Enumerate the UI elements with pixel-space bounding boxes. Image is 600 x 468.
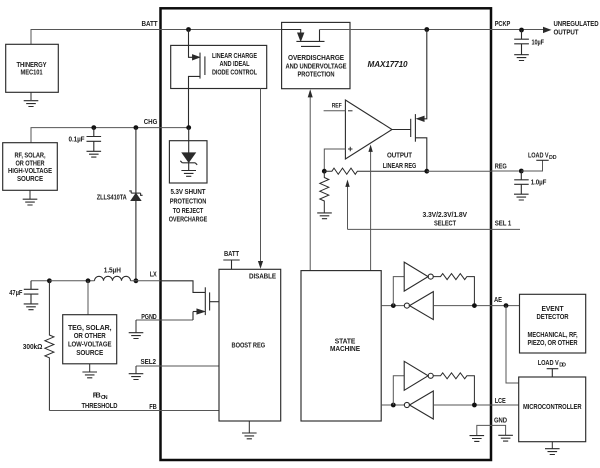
- capacitor C4 47µF: [24, 281, 39, 304]
- junction LX / D1 anode: [134, 278, 139, 283]
- svg-text:DISABLE: DISABLE: [249, 271, 276, 280]
- svg-text:OUTPUT: OUTPUT: [387, 151, 412, 160]
- block overdischarge and undervoltage protection: [282, 22, 350, 88]
- junction PCKP / output FET drain: [424, 27, 429, 32]
- ground PGND: [129, 333, 144, 339]
- wire wire battery to ground: [30, 92, 32, 100]
- svg-text:PIEZO, OR OTHER: PIEZO, OR OTHER: [528, 338, 579, 347]
- wire wire PCKP to unregulated output: [491, 29, 543, 31]
- svg-text:LX: LX: [150, 270, 157, 279]
- junction AE / microcontroller: [504, 303, 509, 308]
- transistor Q3 output linear reg FET: [392, 30, 427, 172]
- ground divider: [317, 213, 332, 219]
- wire wire L1 to LX pin: [131, 280, 161, 282]
- block linear charge and ideal diode control: [171, 45, 267, 88]
- wire wire SEL2 ground stem: [135, 366, 137, 374]
- diode D2 zener shunt: [180, 128, 197, 171]
- svg-text:TO REJECT: TO REJECT: [173, 206, 204, 215]
- wire state machine to overdischarge block (arrow): [309, 97, 311, 271]
- wire state machine to AE node: [381, 305, 404, 307]
- junction AE latch node: [391, 303, 396, 308]
- junction divider tap: [322, 169, 327, 174]
- wire wire microcontroller ground: [551, 442, 553, 449]
- wire wire REG to load: [491, 170, 519, 172]
- svg-text:SOURCE: SOURCE: [17, 174, 43, 183]
- wire wire BATT to PCKP internal: [320, 29, 492, 31]
- svg-text:DIODE CONTROL: DIODE CONTROL: [212, 67, 257, 76]
- ground SEL2: [129, 374, 144, 380]
- inductor L1 1.5µH: [95, 276, 131, 281]
- svg-text:SELECT: SELECT: [434, 219, 456, 228]
- ground C2: [514, 55, 529, 61]
- plus sign: [348, 147, 353, 152]
- svg-text:DD: DD: [549, 155, 557, 161]
- resistor R3 300kΩ: [45, 281, 54, 411]
- svg-text:PGND: PGND: [141, 312, 157, 321]
- svg-text:0.1µF: 0.1µF: [69, 135, 85, 144]
- junction LX / R3: [47, 278, 52, 283]
- svg-text:REG: REG: [495, 162, 507, 171]
- junction CHG / C1: [91, 125, 96, 130]
- svg-text:DD: DD: [559, 363, 566, 369]
- block state machine: [301, 271, 381, 421]
- transistor Q1 ideal diode FET: [189, 30, 205, 128]
- svg-text:LCE: LCE: [495, 396, 506, 405]
- block event detector: [520, 294, 586, 353]
- inverter AE driver: [404, 262, 433, 291]
- wire AE latch node to driver input: [393, 277, 404, 306]
- wire wire SEL1: [348, 228, 521, 230]
- svg-text:FB: FB: [149, 402, 157, 411]
- svg-text:MEC101: MEC101: [21, 68, 43, 77]
- svg-text:MACHINE: MACHINE: [330, 344, 360, 353]
- svg-text:CHG: CHG: [144, 117, 158, 126]
- svg-text:1.0µF: 1.0µF: [531, 178, 547, 187]
- wire wire REG inside: [427, 170, 491, 172]
- resistor LCE series: [433, 373, 474, 405]
- wire SEL1 wiper arrow to R1: [347, 187, 349, 230]
- svg-text:BATT: BATT: [224, 249, 239, 258]
- svg-text:BOOST REG: BOOST REG: [232, 341, 266, 350]
- resistor R2 divider bottom: [320, 171, 329, 213]
- svg-text:SEL2: SEL2: [141, 357, 157, 366]
- minus sign: [348, 110, 353, 112]
- junction AE pin node: [472, 303, 477, 308]
- svg-text:3.3V/2.3V/1.8V: 3.3V/2.3V/1.8V: [423, 210, 468, 219]
- wire wire PGND: [136, 319, 193, 321]
- ground TEG: [82, 372, 97, 378]
- svg-text:LOAD V: LOAD V: [538, 358, 559, 367]
- svg-text:SEL 1: SEL 1: [495, 218, 512, 227]
- wire wire GND pin: [477, 425, 506, 435]
- capacitor C2 10µF: [514, 30, 529, 55]
- svg-text:MICROCONTROLLER: MICROCONTROLLER: [523, 402, 582, 411]
- wire wire TEG to ground: [89, 364, 91, 372]
- wire AE pin line: [433, 305, 491, 307]
- svg-text:5.3V SHUNT: 5.3V SHUNT: [171, 187, 206, 196]
- ground C3: [514, 194, 529, 200]
- svg-text:REF: REF: [332, 103, 342, 110]
- svg-text:ON: ON: [101, 395, 108, 401]
- ground RF source: [23, 199, 38, 205]
- junction REG internal: [424, 169, 429, 174]
- transistor Q2 overdischarge FET: [282, 30, 325, 47]
- wire wire SEL2: [136, 365, 219, 367]
- junction PCKP / C2: [519, 28, 524, 33]
- svg-text:1.5µH: 1.5µH: [104, 266, 121, 275]
- svg-text:10µF: 10µF: [532, 38, 545, 47]
- svg-text:BATT: BATT: [142, 19, 158, 28]
- wire wire REF input: [324, 110, 346, 112]
- wire wire RF source to ground: [29, 190, 31, 199]
- ground GND internal: [470, 436, 485, 442]
- resistor AE series: [433, 274, 474, 306]
- wire wire TEG to LX: [87, 281, 89, 315]
- arrowhead unregulated output: [543, 27, 552, 33]
- wire wire C4 to LX: [31, 280, 49, 282]
- junction LCE pin node: [472, 403, 477, 408]
- inverter LCE driver: [404, 361, 433, 390]
- junction LCE latch node: [391, 403, 396, 408]
- wire LCE latch node to driver input: [393, 376, 404, 405]
- svg-text:AE: AE: [494, 295, 502, 304]
- svg-text:DETECTOR: DETECTOR: [537, 312, 570, 321]
- block boost reg: [219, 269, 281, 421]
- wire state machine trim arrow to op-amp: [370, 152, 372, 271]
- wire wire battery to BATT pin: [31, 30, 282, 45]
- svg-text:300kΩ: 300kΩ: [23, 342, 43, 351]
- wire state machine to LCE node: [381, 404, 404, 406]
- diode D1 ZLLS410TA: [129, 128, 142, 281]
- ground GND external: [498, 435, 513, 441]
- svg-text:GND: GND: [494, 416, 508, 425]
- wire wire PGND ground stem: [135, 320, 137, 333]
- svg-text:LOAD V: LOAD V: [528, 150, 549, 159]
- op-amp U1 output linear reg error amp: [345, 100, 392, 159]
- wire wire REG to load VDD: [521, 160, 542, 171]
- block RF solar high-voltage source: [3, 143, 58, 191]
- ground C4: [24, 304, 39, 310]
- wire wire FB: [49, 410, 219, 412]
- wire wire FB divider to plus input: [324, 149, 345, 171]
- wire linear charge to DISABLE (arrow): [260, 89, 262, 262]
- ground battery: [24, 101, 39, 107]
- svg-text:PCKP: PCKP: [495, 19, 511, 28]
- power symbol LOAD VDD (microcontroller): [547, 369, 559, 377]
- wire wire AE to microcontroller: [506, 306, 519, 383]
- junction BATT node / linear charge tap: [186, 27, 191, 32]
- svg-text:MAX17710: MAX17710: [368, 60, 409, 69]
- ground C1: [87, 151, 102, 157]
- ground shunt: [181, 171, 196, 177]
- svg-text:OVERCHARGE: OVERCHARGE: [169, 215, 208, 224]
- svg-text:SOURCE: SOURCE: [76, 348, 103, 357]
- wire wire AE to event detector: [491, 305, 520, 307]
- wire wire boost reg ground: [248, 421, 250, 433]
- capacitor C3 1.0µF: [514, 171, 529, 194]
- block battery THINERGY MEC101: [6, 44, 59, 92]
- inverter LCE receiver: [404, 391, 433, 419]
- wire wire LCE to microcontroller: [491, 404, 519, 406]
- transistor Q4 boost FET: [161, 281, 220, 320]
- junction LX / TEG source: [86, 278, 91, 283]
- power symbol LOAD VDD (REG): [536, 159, 548, 161]
- svg-text:47µF: 47µF: [9, 288, 22, 297]
- resistor R1 divider top (adjustable): [324, 168, 427, 174]
- block TEG solar low-voltage source: [63, 315, 117, 364]
- IC boundary MAX17710: [161, 8, 492, 460]
- block 5.3V shunt protection: [169, 141, 207, 183]
- svg-text:PROTECTION: PROTECTION: [170, 196, 207, 205]
- svg-text:ZLLS410TA: ZLLS410TA: [97, 192, 128, 201]
- svg-text:LINEAR REG: LINEAR REG: [383, 161, 417, 170]
- wire wire LX: [49, 280, 94, 282]
- junction CHG / D1: [134, 125, 139, 130]
- block microcontroller: [519, 377, 586, 442]
- wire wire sources to CHG pin: [31, 128, 189, 143]
- svg-text:PROTECTION: PROTECTION: [298, 70, 335, 79]
- junction CHG internal node: [186, 125, 191, 130]
- svg-text:OUTPUT: OUTPUT: [554, 27, 579, 36]
- inverter AE receiver: [404, 292, 433, 320]
- wire LCE pin line: [433, 404, 491, 406]
- capacitor C1 0.1µF: [87, 128, 102, 152]
- ground boost reg: [242, 433, 257, 439]
- svg-text:THRESHOLD: THRESHOLD: [82, 401, 119, 410]
- junction REG / C3 / load: [519, 169, 524, 174]
- ground microcontroller: [545, 449, 560, 455]
